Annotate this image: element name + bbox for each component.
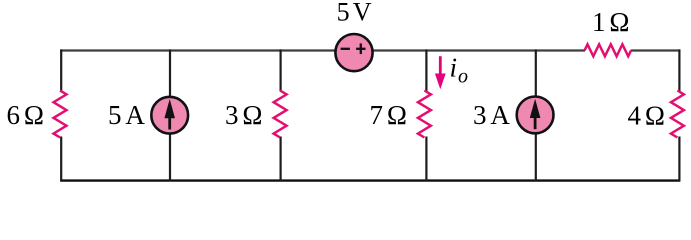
svg-text:7 Ω: 7 Ω <box>370 100 407 130</box>
current source 3A arrow (up) <box>534 116 537 130</box>
svg-text:o: o <box>458 65 468 87</box>
wire left branch top stub <box>60 49 62 91</box>
wire 7-ohm branch bottom stub <box>425 137 427 181</box>
wire 3-ohm branch bottom stub <box>280 137 282 181</box>
svg-text:3 Ω: 3 Ω <box>225 100 262 130</box>
current arrow i_o (pink, downward) <box>439 56 442 76</box>
resistor 1 ohm (horizontal zigzag) <box>585 44 632 56</box>
svg-text:6 Ω: 6 Ω <box>7 100 44 130</box>
wire 7-ohm branch top stub <box>425 49 427 91</box>
wire right branch bottom stub <box>678 137 680 181</box>
voltage source 5V (circle) <box>335 34 372 71</box>
wire right branch top stub <box>678 49 680 91</box>
voltage source 5V plus sign <box>356 48 365 50</box>
wire 5A branch top stub <box>169 49 171 98</box>
current source 3A (circle) <box>517 97 554 134</box>
wire 3-ohm branch top stub <box>280 49 282 91</box>
wire top segment left (node a to 5V source) <box>60 49 336 51</box>
resistor 4 ohm (zigzag) <box>671 91 684 138</box>
wire left branch bottom stub <box>60 137 62 181</box>
svg-text:4 Ω: 4 Ω <box>628 101 665 131</box>
wire 3A branch bottom stub <box>535 133 537 181</box>
svg-text:3 A: 3 A <box>473 100 510 130</box>
svg-text:i: i <box>450 53 458 83</box>
svg-text:5 A: 5 A <box>108 100 145 130</box>
resistor 6 ohm (zigzag) <box>54 91 67 138</box>
svg-text:5 V: 5 V <box>337 0 372 27</box>
wire 3A branch top stub <box>535 49 537 98</box>
svg-text:1 Ω: 1 Ω <box>592 7 629 37</box>
wire top segment middle (5V source to 1 ohm resistor) <box>372 49 585 51</box>
resistor 7 ohm (zigzag) <box>418 91 431 138</box>
current source 5A (circle) <box>151 97 188 134</box>
voltage source 5V minus sign <box>341 48 350 50</box>
resistor 3 ohm (zigzag) <box>274 91 287 138</box>
wire top segment right (1 ohm resistor to top-right corner) <box>631 49 681 51</box>
wire bottom (ground rail) <box>60 179 680 181</box>
wire 5A branch bottom stub <box>169 133 171 181</box>
current source 5A arrow (up) <box>168 116 171 130</box>
